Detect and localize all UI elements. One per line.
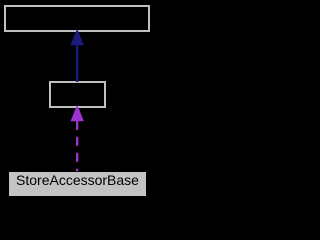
node: top base-class box [5,6,149,31]
svg-text:StoreAccessorBase: StoreAccessorBase [16,172,139,188]
node: middle intermediate-class box [50,82,105,107]
label: StoreAccessorBase [16,172,139,188]
node: StoreAccessorBase box [9,172,146,196]
usage arrow (dashed darkorchid): StoreAccessorBase to middle box [71,105,84,172]
inheritance arrow (solid midnightblue): middle box to top box [71,29,84,82]
